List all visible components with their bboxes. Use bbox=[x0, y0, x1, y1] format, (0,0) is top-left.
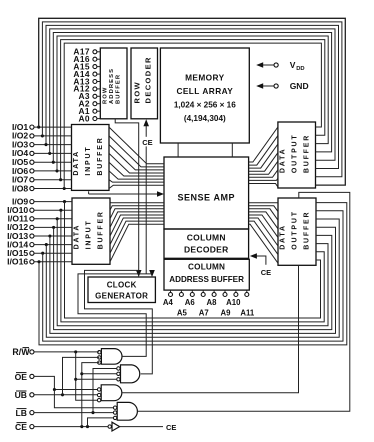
wire CE into U4 sense amp (right arrow) bbox=[89, 191, 164, 197]
svg-text:CE: CE bbox=[15, 422, 27, 432]
svg-text:CLOCK: CLOCK bbox=[107, 281, 137, 290]
block U3 memory cell array bbox=[160, 48, 249, 143]
wire G1 output wrap to U7 clock generator bbox=[78, 274, 152, 357]
svg-text:BUFFER: BUFFER bbox=[98, 210, 105, 249]
block U6 column address buffer bbox=[164, 259, 249, 290]
pin R/W with terminal bbox=[12, 347, 34, 357]
wire B1 output (CE net) bbox=[120, 426, 163, 428]
node CE label (row decoder/sense amp) bbox=[141, 137, 155, 147]
address input pins A17-A12, A3-A0 with terminals bbox=[73, 47, 100, 124]
svg-text:BUFFER: BUFFER bbox=[97, 136, 104, 175]
svg-text:COLUMN: COLUMN bbox=[187, 233, 226, 243]
svg-text:BUFFER: BUFFER bbox=[304, 211, 311, 250]
svg-text:A9: A9 bbox=[221, 308, 232, 317]
power VDD terminal bbox=[256, 60, 304, 72]
block U1 row address buffer bbox=[100, 48, 127, 119]
I/O pins I/O1-I/O8 with terminals, wires into U8 and branch junctions bbox=[12, 122, 72, 193]
svg-text:ROW: ROW bbox=[102, 87, 108, 104]
wire U8 enable stub bbox=[88, 191, 90, 194]
wire I/O11 bus loop around bottom to U11 bbox=[57, 219, 328, 326]
wire fan U8 data input buffer to U4 sense amp (8 lines) bbox=[109, 127, 164, 188]
block U10 data output buffer (I/O1-8) bbox=[278, 122, 316, 188]
pin UB-bar with terminal bbox=[15, 390, 34, 400]
block U11 data output buffer (I/O9-16) bbox=[278, 198, 316, 265]
svg-text:1,024 × 256 × 16: 1,024 × 256 × 16 bbox=[174, 101, 236, 110]
wire I/O16 bus loop around bottom to U11 bbox=[39, 203, 347, 345]
wire I/O14 bus loop around bottom to U11 bbox=[46, 219, 339, 337]
svg-text:DECODER: DECODER bbox=[144, 56, 153, 103]
wire I/O15 bus loop around bottom to U11 bbox=[43, 211, 343, 341]
svg-text:INPUT: INPUT bbox=[85, 146, 92, 176]
pin LB-bar with terminal bbox=[16, 408, 34, 418]
wire fan U4 sense amp to U11 data output buffer (8 lines) bbox=[249, 203, 278, 264]
wire I/O5 bus loop around top to U10 bbox=[53, 33, 331, 163]
ground GND terminal bbox=[256, 81, 308, 91]
svg-text:A5: A5 bbox=[177, 308, 188, 317]
wire U1 row address buffer to U7 clock generator (down arrow) bbox=[115, 119, 141, 277]
wire I/O9 bus loop around bottom to U11 bbox=[65, 202, 321, 318]
svg-text:COLUMN: COLUMN bbox=[188, 262, 225, 271]
wire I/O13 bus loop around bottom to U11 bbox=[50, 227, 336, 333]
svg-text:CE: CE bbox=[166, 423, 176, 432]
svg-text:DATA: DATA bbox=[74, 224, 81, 250]
svg-text:A0: A0 bbox=[78, 113, 90, 123]
block U2 row decoder bbox=[131, 48, 158, 119]
svg-text:CE: CE bbox=[261, 268, 271, 277]
svg-text:BUFFER: BUFFER bbox=[116, 74, 122, 104]
svg-text:V: V bbox=[290, 60, 296, 70]
svg-text:DD: DD bbox=[296, 66, 304, 72]
svg-text:A8: A8 bbox=[207, 298, 218, 307]
wire I/O6 bus loop around top to U10 bbox=[57, 36, 328, 171]
wire I/O7 bus loop around top to U10 bbox=[61, 40, 325, 180]
svg-text:R/W: R/W bbox=[12, 347, 30, 357]
svg-text:A7: A7 bbox=[199, 308, 209, 317]
node CE label (column decoder) bbox=[261, 268, 271, 277]
svg-text:DATA: DATA bbox=[73, 150, 80, 176]
svg-text:A10: A10 bbox=[226, 298, 241, 307]
svg-text:DECODER: DECODER bbox=[184, 245, 229, 255]
svg-text:ADDRESS BUFFER: ADDRESS BUFFER bbox=[169, 275, 244, 284]
wire CE to U2 row decoder (up arrow) bbox=[143, 119, 149, 274]
svg-text:A6: A6 bbox=[185, 298, 196, 307]
wire CE into U5 column decoder (left arrow) bbox=[250, 253, 266, 265]
svg-text:DATA: DATA bbox=[279, 147, 286, 173]
wire R/W to G1 and branches bbox=[34, 350, 117, 400]
svg-text:OE: OE bbox=[15, 372, 28, 382]
wire LB-bar to G4 and G2 bbox=[34, 369, 117, 415]
svg-text:SENSE AMP: SENSE AMP bbox=[178, 193, 236, 203]
svg-text:OUTPUT: OUTPUT bbox=[291, 134, 298, 174]
wire I/O10 bus loop around bottom to U11 bbox=[61, 210, 324, 322]
svg-text:MEMORY: MEMORY bbox=[185, 73, 224, 83]
svg-text:CE: CE bbox=[142, 138, 152, 147]
svg-text:GENERATOR: GENERATOR bbox=[95, 292, 148, 301]
svg-text:ADDRESS: ADDRESS bbox=[109, 68, 115, 104]
svg-text:A4: A4 bbox=[163, 298, 174, 307]
svg-text:LB: LB bbox=[16, 408, 27, 418]
buffer B1 (CE driver) with input bubble bbox=[108, 422, 120, 431]
svg-text:I/O16: I/O16 bbox=[7, 257, 28, 267]
address input pins A4-A11 with terminals under U6 bbox=[163, 290, 255, 317]
I/O pins I/O9-I/O16 with terminals, wires into U9 and branch junctions bbox=[7, 196, 72, 266]
wire I/O1 bus loop around top to U10 bbox=[39, 18, 346, 185]
AND gate G2 (3 inverting inputs) bbox=[117, 365, 140, 383]
wire fan U9 data input buffer to U4 sense amp (8 lines) bbox=[110, 202, 164, 262]
block U4 sense amp bbox=[164, 157, 249, 229]
svg-text:GND: GND bbox=[290, 81, 309, 91]
block U5 column decoder bbox=[164, 229, 249, 258]
svg-text:(4,194,304): (4,194,304) bbox=[184, 114, 226, 123]
wire U3 memory cell array to U4 sense amp bbox=[178, 143, 232, 157]
AND gate G3 (3 inverting inputs) bbox=[97, 385, 121, 402]
wire I/O12 bus loop around bottom to U11 bbox=[54, 227, 332, 329]
block U7 clock generator bbox=[88, 277, 155, 303]
AND gate G4 (3 inverting inputs) bbox=[113, 402, 137, 420]
block U9 data input buffer (I/O9-16) bbox=[72, 198, 110, 264]
svg-text:OUTPUT: OUTPUT bbox=[292, 210, 299, 250]
svg-text:I/O8: I/O8 bbox=[12, 183, 28, 193]
svg-text:UB: UB bbox=[15, 390, 27, 400]
pin OE-bar with terminal bbox=[15, 372, 34, 382]
svg-text:A11: A11 bbox=[240, 308, 255, 317]
wire CE-bar to buffer, G1, G2, G4 bbox=[34, 363, 117, 429]
svg-text:ROW: ROW bbox=[133, 81, 142, 104]
svg-text:DATA: DATA bbox=[280, 224, 287, 250]
wire G3 output to U11 bottom edge bbox=[122, 265, 299, 393]
wire OE-bar to G3 and G4 bbox=[34, 376, 113, 407]
svg-text:CELL ARRAY: CELL ARRAY bbox=[176, 86, 233, 96]
wire UB-bar to G3 and G1 bbox=[34, 357, 99, 396]
node CE label (buffer output) bbox=[166, 423, 176, 432]
wire I/O3 bus loop around top to U10 bbox=[46, 25, 339, 168]
AND gate G1 (R/W qualifier, 3 inverting inputs) bbox=[98, 349, 122, 365]
wire I/O2 bus loop around top to U10 bbox=[42, 22, 342, 177]
block U8 data input buffer (I/O1-8) bbox=[72, 125, 110, 191]
pin CE-bar with terminal bbox=[15, 422, 34, 432]
wire CE branch into U7 clock generator (down arrow) bbox=[149, 270, 155, 277]
svg-text:BUFFER: BUFFER bbox=[303, 134, 310, 173]
wire G4 output to U11 top edge bbox=[137, 192, 349, 411]
wire I/O8 bus loop around top to U10 bbox=[64, 43, 321, 188]
wire G2 output wrap to U7 clock generator bbox=[85, 270, 153, 374]
wire fan U4 sense amp to U10 data output buffer (8 lines) bbox=[249, 127, 278, 187]
wire I/O4 bus loop around top to U10 bbox=[50, 29, 335, 160]
svg-text:INPUT: INPUT bbox=[86, 219, 93, 249]
